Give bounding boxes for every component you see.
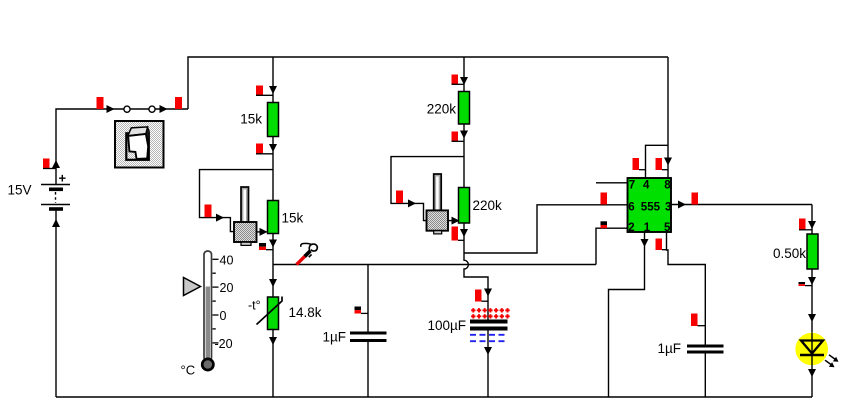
svg-text:20: 20 <box>220 281 234 295</box>
wire link to pin 6 <box>464 205 628 253</box>
svg-text:1µF: 1µF <box>322 330 346 345</box>
current arrow below R5 <box>808 277 816 285</box>
wire battery top to switch row <box>56 109 188 184</box>
voltage bar pin 5 <box>656 239 667 251</box>
voltage bar pin 6 <box>601 193 608 205</box>
potentiometer VR1 lever <box>241 187 249 223</box>
current arrow VR2 out <box>452 217 460 225</box>
svg-text:220k: 220k <box>427 102 457 117</box>
wire R4 bottom with hop over node wire <box>464 223 488 320</box>
current arrow above R1 <box>269 86 277 94</box>
current arrow into VR1 <box>216 214 224 222</box>
svg-text:4: 4 <box>643 180 650 192</box>
svg-text:14.8k: 14.8k <box>289 305 322 320</box>
resistor R2 15k <box>268 201 279 234</box>
svg-text:°C: °C <box>181 363 196 378</box>
LED D1 symbol <box>800 333 824 355</box>
current arrow above R3 <box>460 77 468 85</box>
thermometer scale labels <box>215 253 234 351</box>
current arrow after switch <box>160 105 168 113</box>
svg-text:220k: 220k <box>473 198 503 213</box>
wire thermistor to ground <box>272 330 274 398</box>
svg-text:+: + <box>59 171 67 186</box>
potentiometer VR2 foot <box>434 231 442 234</box>
voltage bar above R5 <box>799 219 812 231</box>
thermometer tube <box>204 251 212 361</box>
voltage bar above R1 <box>256 86 273 96</box>
wire VR1 right terminal <box>257 231 267 233</box>
svg-text:0: 0 <box>220 309 227 323</box>
wire riser to top rail <box>188 57 668 109</box>
current arrow below R1 <box>269 144 277 152</box>
resistor R4 220k <box>459 188 470 224</box>
voltage bar pin 8 <box>656 158 669 170</box>
potentiometer VR2 lever <box>434 174 442 211</box>
voltage bar above C3 <box>691 314 705 327</box>
wire pin4 jog <box>646 145 669 178</box>
wire pin 7 stub <box>596 182 628 184</box>
current arrow above R5 <box>808 221 816 229</box>
voltage bar pin 2 (black top) <box>601 221 608 228</box>
voltage bar right of switch <box>175 97 182 109</box>
current arrow below R3 <box>460 131 468 139</box>
wire rail drop to R1 <box>272 57 274 103</box>
voltage bar pin 3 <box>692 193 699 205</box>
svg-text:8: 8 <box>664 180 671 192</box>
svg-text:7: 7 <box>629 180 635 192</box>
wire pin 2 <box>596 228 628 264</box>
voltage bar below R2 (black top) <box>259 243 273 250</box>
voltage bar above R3 <box>452 75 465 85</box>
svg-text:555: 555 <box>641 201 661 213</box>
svg-text:15V: 15V <box>8 183 32 198</box>
current arrow up below battery <box>52 219 60 227</box>
IC U1 555 <box>628 178 672 234</box>
thermometer bulb <box>202 359 213 370</box>
voltage bar below R1 <box>256 144 273 155</box>
probe clip on wire <box>297 243 318 264</box>
wire C2 to ground <box>487 331 489 398</box>
wire R1 to R2 <box>272 137 274 201</box>
current arrow VR1 out <box>260 228 268 236</box>
current arrow pin 3 <box>678 201 686 209</box>
wire battery bottom to ground <box>55 211 57 398</box>
voltage bar battery <box>43 159 56 169</box>
wire 555 supply riser <box>667 57 669 178</box>
wire pin 1 to ground <box>609 232 645 397</box>
current arrow before switch <box>107 105 115 113</box>
thermometer scale ticks <box>213 259 219 343</box>
potentiometer VR2 body <box>427 210 449 230</box>
wire rail drop to R3 <box>463 57 465 92</box>
voltage bar left of switch <box>97 97 104 109</box>
current arrow above thermistor <box>269 279 277 287</box>
wire output branch down right side <box>811 205 813 237</box>
wire LED to ground <box>811 355 813 397</box>
voltage bar below R4 <box>452 227 465 241</box>
wire R5 to LED <box>811 269 813 341</box>
voltage bar above C1 (black top) <box>355 307 369 314</box>
resistor R3 220k <box>459 92 470 125</box>
voltage bar VR1 branch <box>205 205 212 218</box>
LED D1 glow <box>795 333 828 366</box>
svg-text:0.50k: 0.50k <box>773 246 806 261</box>
resistor R1 15k <box>268 103 279 137</box>
svg-text:3: 3 <box>665 201 671 213</box>
svg-text:-t°: -t° <box>248 299 261 313</box>
resistor R5 0.50k <box>807 234 818 269</box>
capacitor C2 negative charge marks <box>470 335 508 341</box>
wire pin 3 output <box>671 204 812 206</box>
current arrow up above battery <box>52 160 60 168</box>
svg-text:15k: 15k <box>240 112 262 127</box>
voltage bar VR2 branch <box>396 191 403 204</box>
current arrow pin 1 <box>641 239 649 247</box>
wire pin 5 to C3 <box>667 232 706 345</box>
capacitor C3 1uF <box>687 346 724 352</box>
wire C3 to ground <box>704 353 706 397</box>
current arrow below R4 <box>460 229 468 237</box>
svg-text:15k: 15k <box>282 211 304 226</box>
voltage bar below R5 (black top) <box>799 282 813 286</box>
svg-text:100µF: 100µF <box>427 318 466 333</box>
capacitor C2 100uF plates <box>470 322 508 329</box>
voltage bar pin 4 <box>633 158 646 170</box>
potentiometer VR1 body <box>234 222 257 242</box>
potentiometer VR1 foot <box>241 242 251 245</box>
node wire to pin2 (long horizontal) <box>273 264 596 266</box>
ground rail <box>56 396 812 398</box>
thermometer pointer <box>184 278 201 296</box>
current arrow above LED <box>808 314 816 322</box>
voltage bar above C2 <box>475 290 488 302</box>
current arrow below thermistor <box>269 337 277 345</box>
LED light arrows <box>825 355 839 367</box>
switch SW1 rocker icon <box>115 121 164 168</box>
current arrow above C2 <box>484 289 492 297</box>
wire VR2 base branch <box>391 157 464 221</box>
thermistor TH1 <box>257 297 283 330</box>
wire R2 down through node <box>272 234 274 298</box>
wire R3 to R4 <box>463 124 465 188</box>
svg-text:1µF: 1µF <box>657 341 681 356</box>
svg-text:5: 5 <box>664 222 671 234</box>
battery B1 15V <box>41 171 70 210</box>
wire capacitor C1 riser <box>367 265 369 333</box>
svg-text:-20: -20 <box>215 337 233 351</box>
wire C1 to ground <box>367 342 369 397</box>
current arrow into pin 8 <box>664 158 672 166</box>
svg-text:6: 6 <box>628 201 634 213</box>
capacitor C1 1uF <box>350 333 387 341</box>
svg-text:40: 40 <box>220 253 234 267</box>
current arrow below LED <box>808 369 816 377</box>
wire VR1 base branch <box>200 170 274 232</box>
current arrow below C2 <box>484 347 492 355</box>
capacitor C2 100uF positive charge marks <box>471 308 510 318</box>
voltage bar below R3 <box>452 132 465 142</box>
current arrow into VR2 <box>408 199 416 207</box>
current arrow below R2 <box>269 240 277 248</box>
switch SW1 contacts <box>124 106 155 112</box>
svg-text:2: 2 <box>628 222 634 234</box>
wire VR2 right terminal <box>448 220 458 222</box>
